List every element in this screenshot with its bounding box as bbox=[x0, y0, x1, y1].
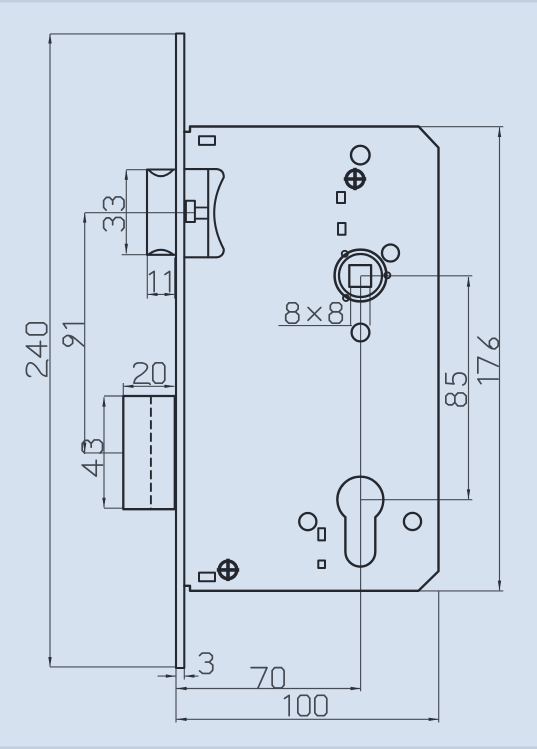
text 100 bbox=[285, 695, 327, 715]
arrow 3 left bbox=[166, 674, 176, 677]
small rect top-left of body bbox=[199, 136, 215, 145]
arrow 85 top bbox=[467, 277, 470, 287]
arrow 43 top bbox=[102, 397, 105, 407]
text 33 bbox=[104, 197, 124, 231]
latch cylinder arc bottom bbox=[149, 250, 174, 255]
latch bolt cage (left of faceplate) bbox=[147, 170, 175, 255]
arrow 70 right bbox=[351, 687, 361, 690]
dim line 11 bbox=[148, 293, 175, 295]
ext line 240 top bbox=[50, 33, 175, 35]
arrow 20 left bbox=[123, 385, 133, 388]
hub inner circle bbox=[339, 254, 382, 297]
ext line 100 right bbox=[438, 591, 440, 723]
arrow 100 left bbox=[177, 718, 187, 721]
hub outer circle bbox=[335, 250, 387, 302]
arrow 11 left bbox=[148, 293, 158, 296]
arrow 100 right bbox=[429, 718, 439, 721]
arrow 91 top bbox=[83, 213, 86, 223]
dim line 33 bbox=[125, 170, 127, 253]
ext line 240 bottom bbox=[50, 666, 175, 668]
circle top bbox=[351, 146, 370, 165]
arrow 240 bottom bbox=[48, 657, 51, 667]
text 8x8 bbox=[286, 303, 343, 323]
arrow 33 top bbox=[125, 170, 128, 180]
arrow 85 bottom bbox=[467, 489, 470, 499]
ext faceplate right below bbox=[183, 668, 185, 680]
text 176 bbox=[478, 337, 498, 384]
dim line 85 bbox=[468, 277, 470, 499]
latch stem lines bbox=[195, 207, 208, 209]
dim line 20 bbox=[123, 385, 174, 387]
latch centerline bbox=[85, 212, 194, 214]
ext line 11 right bbox=[174, 258, 176, 299]
ext line 43 bottom bbox=[104, 507, 123, 509]
arrow 176 bottom bbox=[498, 581, 501, 591]
hub tab upper-left bbox=[342, 251, 348, 257]
ext line 33 bottom bbox=[122, 254, 148, 256]
circle right of cylinder bbox=[404, 513, 421, 530]
thin lines layer bbox=[50, 34, 503, 723]
latch cylinder arc top bbox=[149, 170, 174, 176]
circle below hub bbox=[352, 324, 370, 342]
small rect below screw top bbox=[337, 192, 345, 203]
ext line cylinder center bbox=[361, 499, 473, 501]
arrow 70 left bbox=[177, 687, 187, 690]
8x8 ext left bbox=[350, 287, 352, 325]
arrow 11 right bbox=[165, 293, 175, 296]
ext line 33 top bbox=[126, 169, 148, 171]
arrow 91 bottom bbox=[83, 443, 86, 453]
text 43 bbox=[82, 440, 102, 476]
dim line 240 bbox=[49, 34, 51, 667]
ext line hub center bbox=[361, 275, 473, 277]
circle NE of hub bbox=[382, 245, 399, 262]
hub tab right bbox=[384, 272, 390, 278]
dimension arrows bbox=[48, 34, 501, 722]
screw bottom-left bbox=[217, 559, 239, 581]
text 11 bbox=[150, 271, 170, 291]
euro cylinder profile bbox=[337, 477, 383, 567]
dim line 91 bbox=[84, 213, 86, 452]
vertical centerline spindle to 70 dim bbox=[360, 276, 362, 691]
screw top bbox=[344, 168, 366, 190]
small rect lower bbox=[318, 561, 325, 569]
ext line 20 left bbox=[122, 383, 124, 396]
small rect 2 bbox=[338, 223, 346, 235]
text 91 bbox=[63, 324, 83, 346]
dim line 176 bbox=[499, 127, 501, 590]
small rect near cylinder left bbox=[318, 528, 325, 540]
deadbolt bbox=[123, 396, 175, 509]
8x8 ext right bbox=[369, 287, 371, 325]
dimension texts bbox=[26, 197, 498, 716]
hub square 8x8 bbox=[349, 265, 371, 287]
dim line 3 right tail bbox=[185, 675, 199, 677]
arrow 240 top bbox=[48, 34, 51, 44]
8x8 underline leader bbox=[278, 325, 352, 327]
arrow 43 bottom bbox=[102, 498, 105, 508]
ext line body top right bbox=[419, 126, 504, 128]
faceplate bbox=[176, 34, 184, 669]
dim line 70 bbox=[177, 688, 361, 690]
text 240 bbox=[26, 323, 47, 377]
arrow 33 bottom bbox=[125, 244, 128, 254]
ext line 91 bottom bbox=[85, 452, 124, 454]
latch stem box bbox=[186, 201, 195, 222]
latch head inner edge bbox=[207, 169, 209, 257]
lock body outline bbox=[184, 127, 438, 591]
small rect bottom-left of body bbox=[199, 573, 215, 582]
text 20 bbox=[134, 363, 165, 384]
dim line 100 bbox=[177, 718, 439, 720]
dim line 43 bbox=[103, 397, 105, 507]
latch bolt head (right of faceplate) bbox=[184, 169, 224, 257]
deadbolt dashed centerline bbox=[150, 396, 152, 509]
text 70 bbox=[251, 668, 284, 688]
ext faceplate left below bbox=[175, 668, 177, 723]
arrow 3 right bbox=[184, 674, 194, 677]
ext line body bottom right bbox=[418, 590, 503, 592]
circle left of cylinder bbox=[299, 513, 316, 530]
text 85 bbox=[446, 373, 466, 406]
ext line 43 top bbox=[104, 395, 123, 397]
dim line 3 left tail bbox=[158, 675, 176, 677]
hub tab lower-left bbox=[343, 295, 349, 301]
arrow 176 top bbox=[498, 127, 501, 137]
ext line 11 left bbox=[146, 255, 148, 299]
arrow 20 right bbox=[165, 385, 175, 388]
text 3 bbox=[200, 653, 213, 673]
